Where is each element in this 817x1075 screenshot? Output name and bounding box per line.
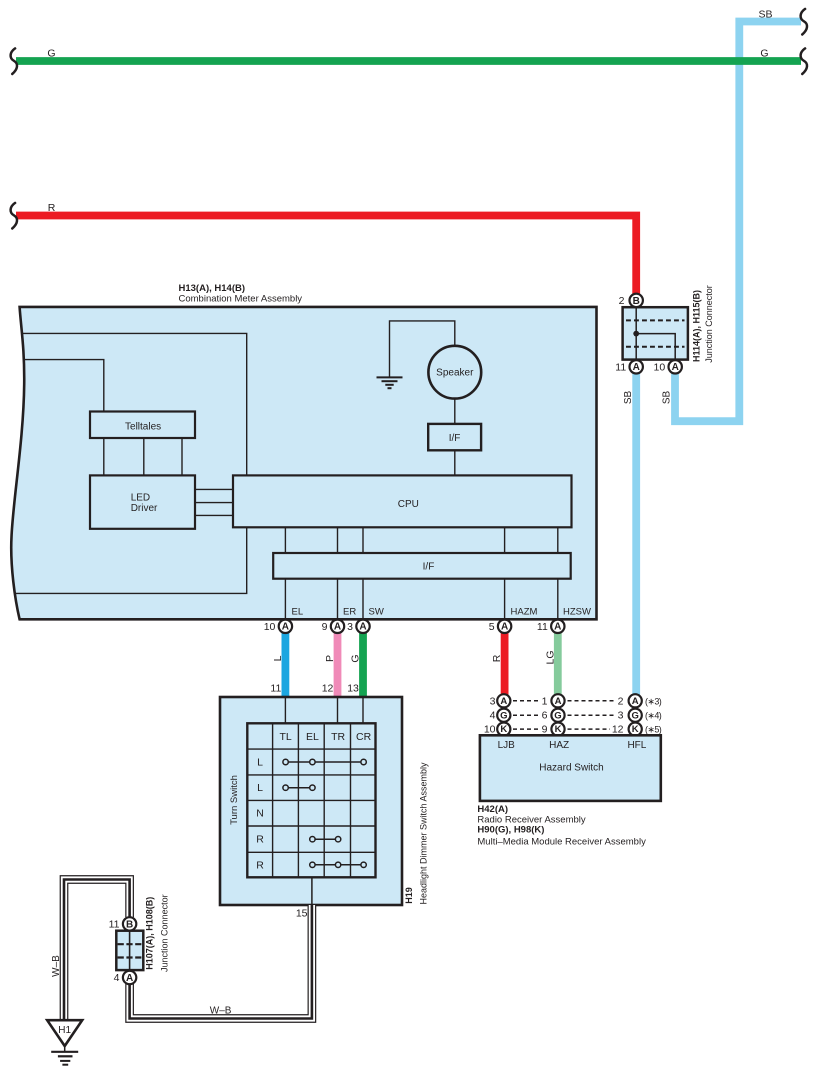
svg-text:LJB: LJB — [498, 740, 516, 751]
hazard pin 1 A — [542, 694, 565, 707]
svg-text:HAZM: HAZM — [511, 607, 538, 618]
svg-text:A: A — [633, 362, 640, 373]
svg-text:Multi–Media Module Receiver As: Multi–Media Module Receiver Assembly — [477, 837, 646, 848]
svg-text:K: K — [555, 724, 562, 735]
inner boundary rectangle — [15, 333, 247, 593]
svg-text:G: G — [760, 48, 768, 60]
svg-text:2: 2 — [619, 295, 625, 307]
svg-text:H107(A), H108(B): H107(A), H108(B) — [145, 897, 155, 970]
svg-text:Hazard Switch: Hazard Switch — [539, 763, 603, 774]
svg-text:SB: SB — [623, 391, 634, 405]
svg-text:Combination Meter Assembly: Combination Meter Assembly — [179, 294, 303, 305]
svg-text:W–B: W–B — [210, 1006, 232, 1017]
svg-text:4: 4 — [490, 710, 496, 722]
pin 9 A (ER) — [322, 620, 345, 634]
pin 3 A (SW) — [347, 620, 370, 634]
hazard pin 2 A — [618, 694, 662, 707]
svg-text:SB: SB — [758, 9, 772, 21]
svg-text:B: B — [633, 296, 640, 307]
svg-text:12: 12 — [612, 724, 624, 736]
svg-text:HZSW: HZSW — [563, 607, 591, 618]
hazard dashed link row 2 — [513, 714, 539, 716]
junction pin B — [619, 294, 643, 307]
svg-text:Junction Connector: Junction Connector — [704, 285, 714, 363]
hazard switch box — [480, 735, 661, 801]
svg-text:12: 12 — [322, 683, 334, 695]
junction pin 4 A — [114, 971, 137, 984]
I/F box (long) — [273, 553, 571, 579]
svg-text:1: 1 — [542, 695, 548, 707]
wire G (green) pin 3 to turn switch — [359, 633, 367, 699]
telltales box — [90, 412, 195, 439]
svg-text:I/F: I/F — [449, 433, 461, 444]
svg-text:L: L — [272, 655, 284, 661]
svg-text:5: 5 — [489, 621, 495, 633]
svg-text:11: 11 — [270, 683, 281, 695]
svg-text:A: A — [672, 362, 679, 373]
svg-text:G: G — [632, 710, 639, 721]
contact table — [247, 723, 375, 877]
hazard dashed link row 1 — [513, 700, 539, 702]
contacts row L1 — [283, 759, 366, 764]
hazard pin 3 G — [618, 709, 662, 722]
svg-text:Headlight Dimmer Switch Assemb: Headlight Dimmer Switch Assembly — [418, 762, 428, 905]
svg-text:3: 3 — [490, 695, 496, 707]
svg-text:CR: CR — [356, 731, 372, 743]
svg-text:ER: ER — [343, 607, 356, 618]
junction connector H107(A) H108(B) — [116, 931, 143, 970]
svg-text:Driver: Driver — [131, 503, 158, 514]
wire W-B (junction pin 11 up, left, down to ground) — [64, 880, 130, 1021]
svg-text:B: B — [126, 919, 133, 930]
speaker — [428, 346, 481, 399]
svg-text:N: N — [256, 808, 264, 820]
wire pin 13 to contact table — [362, 697, 364, 723]
svg-text:EL: EL — [292, 607, 304, 618]
svg-text:LED: LED — [131, 493, 150, 504]
break symbol G right — [801, 48, 807, 74]
svg-text:11: 11 — [537, 621, 548, 633]
svg-text:11: 11 — [109, 919, 120, 931]
svg-text:13: 13 — [347, 683, 359, 695]
svg-text:10: 10 — [484, 724, 496, 736]
svg-text:EL: EL — [306, 731, 319, 743]
svg-text:9: 9 — [322, 621, 328, 633]
svg-text:R: R — [256, 859, 264, 871]
I/F box (small) — [428, 424, 481, 450]
svg-text:CPU: CPU — [398, 499, 419, 510]
wire LG pin 11 to hazard pin 1 — [554, 633, 562, 695]
svg-text:R: R — [491, 654, 503, 662]
svg-text:H90(G), H98(K): H90(G), H98(K) — [477, 825, 544, 836]
svg-text:L: L — [257, 782, 263, 794]
contacts row R2 — [310, 862, 367, 867]
svg-text:Telltales: Telltales — [125, 421, 161, 432]
wire pin 11 to contact table — [284, 697, 286, 723]
svg-text:11: 11 — [615, 362, 626, 374]
junction pin 11 A — [615, 360, 643, 373]
svg-text:2: 2 — [618, 695, 624, 707]
svg-text:9: 9 — [542, 724, 548, 736]
svg-text:G: G — [500, 710, 507, 721]
svg-text:HFL: HFL — [627, 740, 646, 751]
CPU box — [233, 475, 572, 527]
svg-text:(∗5): (∗5) — [645, 725, 662, 735]
wires CPU to I/F bus — [285, 527, 557, 553]
svg-text:SB: SB — [662, 391, 673, 405]
wires telltales to LED driver — [104, 438, 182, 475]
svg-text:10: 10 — [654, 362, 666, 374]
junction pin 11 B — [109, 917, 137, 931]
svg-text:(∗3): (∗3) — [645, 696, 662, 706]
hazard pin 4 G — [490, 709, 511, 722]
svg-text:Junction Connector: Junction Connector — [159, 894, 169, 972]
wires I/F to pins — [285, 579, 557, 620]
svg-text:P: P — [324, 655, 336, 662]
svg-text:H19: H19 — [404, 887, 414, 904]
svg-text:K: K — [632, 724, 639, 735]
svg-text:H13(A), H14(B): H13(A), H14(B) — [179, 283, 246, 294]
svg-text:TL: TL — [279, 731, 291, 743]
wire SB (top, from right break to junction connector pin 10) — [675, 22, 801, 422]
wire L (blue) pin 10 to turn switch — [281, 633, 289, 699]
svg-text:L: L — [257, 757, 263, 769]
wire pin 12 to contact table — [337, 697, 339, 723]
svg-text:A: A — [501, 622, 508, 633]
wire I/F to CPU — [454, 450, 456, 475]
svg-text:R: R — [256, 834, 264, 846]
svg-text:G: G — [554, 710, 561, 721]
svg-text:H114(A), H115(B): H114(A), H115(B) — [692, 290, 702, 362]
hazard dashed link row 3 — [513, 728, 539, 730]
hazard pin 6 G — [542, 709, 565, 722]
svg-text:R: R — [48, 202, 56, 214]
svg-text:A: A — [554, 622, 561, 633]
svg-text:Turn Switch: Turn Switch — [229, 775, 240, 825]
svg-text:4: 4 — [114, 972, 120, 984]
contacts row L2 — [283, 785, 315, 790]
svg-text:10: 10 — [264, 621, 276, 633]
wire to telltales — [23, 360, 104, 412]
svg-text:3: 3 — [618, 710, 624, 722]
hazard pin 10 K — [484, 723, 511, 736]
svg-text:LG: LG — [544, 650, 556, 664]
hazard pin 3 A — [490, 694, 511, 707]
svg-text:A: A — [500, 696, 507, 707]
junction connector H114(A) H115(B) — [623, 307, 688, 359]
wire R (red, horizontal then down to junction pin B) — [16, 216, 636, 295]
svg-text:6: 6 — [542, 710, 548, 722]
svg-text:G: G — [350, 654, 362, 662]
svg-text:A: A — [126, 973, 133, 984]
svg-text:H1: H1 — [58, 1025, 71, 1036]
svg-text:A: A — [334, 622, 341, 633]
ground H1 — [47, 1020, 82, 1064]
wire G (green horizontal) — [16, 57, 801, 65]
ground (speaker) — [377, 321, 455, 388]
svg-text:K: K — [500, 724, 507, 735]
junction pin 10 A — [654, 360, 682, 373]
wire R (red) pin 5 to hazard pin 3 — [501, 633, 509, 695]
svg-text:A: A — [555, 696, 562, 707]
svg-text:H42(A): H42(A) — [477, 804, 508, 815]
pin 5 A (HAZM) — [489, 620, 512, 634]
headlight dimmer switch assembly box H19 — [220, 697, 402, 905]
svg-text:(∗4): (∗4) — [645, 711, 662, 721]
bus LED driver to CPU — [195, 489, 233, 515]
wire SB (junction pin 11 down to hazard pin 2) — [632, 373, 640, 695]
svg-text:15: 15 — [296, 908, 308, 920]
break symbol R left — [11, 203, 17, 229]
svg-text:A: A — [282, 622, 289, 633]
svg-text:I/F: I/F — [423, 562, 435, 573]
pin 11 A (HZSW) — [537, 620, 565, 634]
svg-text:G: G — [47, 48, 55, 60]
contacts row R1 — [310, 837, 341, 842]
pin 10 A (EL) — [264, 620, 292, 634]
svg-text:A: A — [359, 622, 366, 633]
wire W-B (pin 15 down, left, up to junction pin 4) — [130, 905, 312, 1019]
break symbol G left — [11, 48, 17, 74]
wire P (pink) pin 9 to turn switch — [334, 633, 342, 699]
svg-text:TR: TR — [331, 731, 345, 743]
wire contact table to pin 15 — [311, 877, 313, 905]
svg-text:3: 3 — [347, 621, 353, 633]
svg-text:Speaker: Speaker — [436, 368, 474, 379]
svg-text:HAZ: HAZ — [549, 740, 569, 751]
wire speaker to I/F — [454, 399, 456, 424]
hazard pin 12 K — [612, 723, 662, 736]
hazard pin 9 K — [542, 723, 565, 736]
svg-text:SW: SW — [369, 607, 384, 618]
svg-text:A: A — [632, 696, 639, 707]
break symbol SB right — [801, 9, 807, 35]
svg-text:W–B: W–B — [51, 955, 62, 977]
combination meter assembly box H13/H14 — [11, 307, 596, 619]
LED driver box — [90, 475, 195, 528]
